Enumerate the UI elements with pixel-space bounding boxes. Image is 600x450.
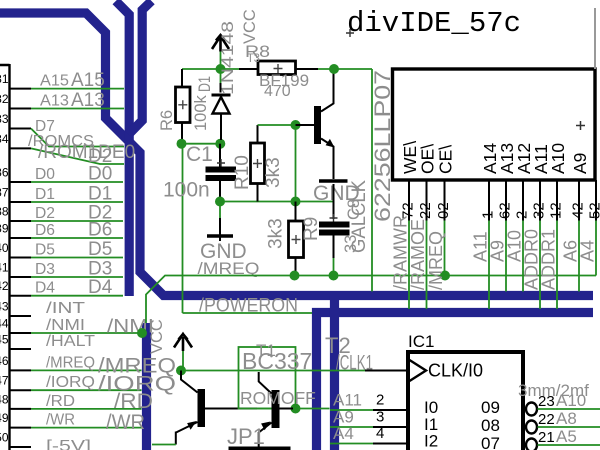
connector pin 37 row	[10, 201, 32, 203]
connector pin 47 row	[10, 389, 32, 391]
svg-text:40: 40	[0, 241, 9, 255]
svg-text:CE\: CE\	[436, 145, 456, 174]
svg-text:A8: A8	[556, 409, 577, 428]
transistor T3 base bar	[314, 106, 321, 144]
wire /POWERON	[183, 312, 313, 314]
svg-text:22: 22	[538, 411, 555, 428]
diode D1 anode pin	[220, 114, 222, 141]
svg-text:OE\: OE\	[418, 144, 438, 174]
svg-text:/RD: /RD	[46, 393, 75, 410]
IC1 clock input triangle	[410, 360, 427, 381]
resistor R8	[258, 61, 296, 75]
svg-text:/HALT: /HALT	[46, 333, 96, 350]
transistor T2 base bar	[198, 389, 206, 427]
svg-text:JP1: JP1	[227, 424, 265, 449]
connector pin 34 row	[10, 147, 32, 149]
connector pin 40 row	[10, 257, 32, 259]
RAM pin 2 (A12)	[522, 180, 524, 221]
svg-text:44: 44	[0, 317, 9, 331]
transistor T1 base bar	[272, 390, 280, 428]
connector pin 41 row	[10, 276, 32, 278]
svg-text:3: 3	[376, 409, 384, 426]
svg-text:49: 49	[0, 411, 9, 425]
diode D1	[212, 94, 231, 97]
capacitor C8 top pin from GND	[333, 184, 335, 219]
resistor R8 left pin	[239, 68, 258, 70]
connector pin 31 row	[10, 88, 32, 90]
IC1 box	[408, 352, 523, 450]
svg-text:A4: A4	[578, 240, 598, 262]
connector pin 46 row	[10, 369, 32, 371]
svg-text:T3: T3	[247, 51, 260, 65]
junction J2 (181.5,143.7)	[177, 139, 187, 149]
svg-text:12: 12	[548, 202, 565, 219]
svg-text:/RD: /RD	[114, 390, 153, 413]
transistor T1 emitter	[259, 423, 272, 448]
junction J10 (445,275.5)	[440, 271, 450, 281]
svg-text:/MREQ: /MREQ	[426, 231, 446, 290]
svg-text:36: 36	[0, 166, 9, 180]
svg-text:D1: D1	[35, 186, 55, 203]
svg-text:/IORQ: /IORQ	[46, 374, 95, 391]
junction J12 (295.5,408.5)	[291, 404, 301, 414]
svg-text:21: 21	[538, 429, 555, 446]
svg-text:09: 09	[481, 398, 500, 417]
wire T2 emitter to bus	[152, 444, 176, 446]
bus B1 (left horizontal, X-cross to lower-right horizontal bus)	[0, 13, 593, 296]
svg-text:R6: R6	[158, 110, 176, 131]
capacitor C1 top pin	[219, 144, 221, 167]
wire D1 anode to VCC node	[220, 69, 222, 83]
resistor R6	[176, 87, 191, 123]
resistor R10 bottom pin	[257, 184, 259, 202]
wire CLK row	[181, 370, 365, 372]
connector pin 32 row	[10, 108, 32, 110]
svg-text:3k3: 3k3	[266, 218, 287, 249]
junction J9 (333.5,275.5)	[329, 271, 339, 281]
svg-text:1: 1	[480, 211, 497, 219]
RAM pin 27 (WE\)	[408, 180, 410, 221]
svg-text:ADDR1: ADDR1	[539, 229, 559, 290]
svg-text:A13: A13	[40, 93, 69, 110]
svg-text:/NMI: /NMI	[107, 317, 154, 338]
svg-text:A15: A15	[71, 70, 105, 91]
svg-text:1N4148: 1N4148	[219, 21, 237, 95]
wire T2 base black segment	[205, 408, 257, 410]
wire long vertical from J2 down to /POWERON corner	[182, 144, 184, 313]
transistor T2 emitter	[176, 422, 198, 445]
capacitor C8 bottom pin	[333, 236, 335, 259]
IC RAM 62256 box	[393, 69, 596, 180]
svg-text:A15: A15	[40, 73, 69, 90]
resistor R10	[251, 143, 265, 184]
bus B3 (vertical, crosses to merge with B2 line)	[129, 1, 152, 135]
svg-text:/INT: /INT	[46, 300, 86, 317]
junction J7 (294.5,275.5)	[290, 271, 300, 281]
svg-text:08: 08	[481, 416, 500, 435]
svg-text:R10: R10	[232, 155, 253, 190]
svg-text:07: 07	[481, 434, 500, 450]
wire C8 to /MREQ wire	[333, 258, 335, 276]
resistor R9 bottom pin	[295, 258, 297, 272]
svg-text:BC337: BC337	[242, 348, 312, 374]
svg-text:A10: A10	[548, 143, 568, 174]
svg-text:VCC: VCC	[148, 319, 166, 354]
capacitor C8 plates	[319, 222, 350, 228]
svg-text:D4: D4	[35, 280, 55, 297]
svg-text:31: 31	[0, 72, 9, 86]
svg-text:T2: T2	[325, 333, 351, 358]
connector pin 44 row	[10, 332, 32, 334]
VCC symbol V2	[174, 334, 192, 351]
connector pin 49 row	[10, 427, 32, 429]
wire J5 to C8 gnd line	[296, 201, 334, 203]
svg-text:3k3: 3k3	[263, 157, 284, 188]
svg-text:/MREQ: /MREQ	[46, 354, 95, 371]
RAM pin 22 (OE\)	[426, 180, 428, 221]
resistor R10 top pin	[257, 125, 259, 143]
connector pin 36 row	[10, 181, 32, 183]
connector pin 33 row	[10, 128, 32, 130]
svg-text:62256LLP07: 62256LLP07	[370, 70, 395, 222]
junction J1 (220.5,69)	[216, 64, 226, 74]
svg-text:I2: I2	[424, 432, 438, 450]
junction J4 (295.5,125)	[291, 120, 301, 130]
svg-text:/ROM1DE0: /ROM1DE0	[38, 142, 135, 163]
svg-text:46: 46	[0, 354, 9, 368]
svg-text:/RAMOE: /RAMOE	[408, 219, 428, 290]
transistor T3 base wire	[296, 124, 315, 126]
RAM pin 26 (A13)	[505, 180, 507, 221]
svg-text:D1: D1	[196, 76, 214, 92]
resistor R9 top pin	[295, 202, 297, 222]
svg-text:/POWERON: /POWERON	[199, 296, 298, 317]
svg-text:D3: D3	[35, 261, 55, 278]
wire node row 69 left	[182, 68, 239, 70]
RAM pin 25 (A4)	[595, 180, 597, 221]
transistor T2 collector	[181, 371, 198, 393]
svg-text:32: 32	[531, 202, 548, 219]
svg-text:470: 470	[264, 83, 291, 100]
wire corner down to bus (GALCLK)	[371, 69, 373, 292]
stray vertical edge above RAM box	[594, 8, 596, 69]
junction J6 (220,201.5)	[215, 197, 225, 207]
svg-text:/NMI: /NMI	[46, 317, 85, 334]
wire R8 to corner	[318, 68, 372, 70]
connector pin 38 row	[10, 220, 32, 222]
VCC symbol V1 (top)	[212, 35, 229, 52]
svg-text:34: 34	[0, 132, 9, 146]
resistor R8 right pin	[296, 68, 319, 70]
wire R10 to J4	[258, 124, 296, 126]
svg-text:ROMOFF: ROMOFF	[240, 388, 316, 408]
IC1 left pin 4 (I2)	[330, 443, 373, 445]
svg-text:2: 2	[376, 392, 384, 409]
resistor R6 bottom pin	[181, 123, 183, 141]
svg-text:22: 22	[417, 202, 434, 219]
svg-text:33: 33	[342, 235, 360, 253]
svg-text:D5: D5	[88, 239, 112, 260]
svg-text:45: 45	[0, 333, 9, 347]
wire J2-J3	[182, 143, 221, 145]
connector pin 43 row	[10, 315, 32, 317]
svg-text:02: 02	[435, 202, 452, 219]
svg-text:32: 32	[0, 92, 9, 106]
connector pin 42 row	[10, 295, 32, 297]
wire CLK pin stub	[365, 370, 409, 372]
svg-text:D1: D1	[88, 184, 112, 205]
title origin cross	[346, 29, 354, 37]
ground symbol GND1	[319, 179, 348, 182]
transistor T3 collector	[321, 70, 334, 112]
bus B6 (left-bottom vertical bus)	[142, 323, 151, 450]
junction J11 (181,370.5)	[176, 366, 186, 376]
svg-text:A9: A9	[570, 153, 590, 174]
svg-text:D0: D0	[35, 166, 55, 183]
capacitor C1 plates	[206, 167, 237, 173]
wire J4 vertical to J5	[295, 125, 297, 202]
connector pin 39 row	[10, 237, 32, 239]
svg-text:37: 37	[0, 186, 9, 200]
junction blob where /NMI meets bus	[137, 328, 147, 338]
RAM pin 24 (A9)	[578, 180, 580, 221]
svg-text:50: 50	[0, 431, 9, 445]
wire J6 down to GND	[219, 202, 221, 219]
connector pin 45 row	[10, 348, 32, 350]
wire J6 to R10/J5	[220, 201, 296, 203]
bus B4 (lower horizontal bus with corner down to bottom edge)	[317, 313, 594, 450]
RAM pin 1 (A14)	[488, 180, 490, 221]
svg-text:A13: A13	[71, 90, 105, 111]
svg-text:41: 41	[0, 261, 9, 275]
diode D1 cathode pin	[220, 83, 222, 93]
connector pin 50 row	[10, 446, 32, 448]
junction J8 (334,69)	[329, 64, 339, 74]
capacitor C1 bottom pin	[219, 181, 221, 198]
svg-text:VCC: VCC	[241, 9, 259, 44]
svg-text:100n: 100n	[163, 179, 210, 202]
svg-text:3mm/2mf: 3mm/2mf	[518, 381, 589, 400]
jumper JP1 bar	[229, 447, 291, 450]
resistor R9	[289, 221, 304, 258]
IC1 left pin 3 (I1)	[330, 426, 373, 428]
GND pin stub (C1 side)	[219, 218, 221, 241]
connector pin 48 row	[10, 408, 32, 410]
RAM pin 20 (CE\)	[444, 180, 446, 221]
svg-text:42: 42	[0, 279, 9, 293]
svg-text:CLK/I0: CLK/I0	[428, 361, 483, 381]
selection rect around T1 (green)	[239, 347, 296, 409]
svg-text:4: 4	[376, 425, 384, 442]
resistor R6 top pin	[181, 69, 183, 87]
svg-text:2: 2	[514, 211, 531, 219]
wire VCC1 stem	[220, 52, 222, 65]
junction J3 (220.3,143.7)	[215, 139, 225, 149]
svg-text:/WR: /WR	[106, 411, 145, 434]
capacitor C1 origin cross	[217, 159, 225, 167]
svg-text:33: 33	[0, 112, 9, 126]
ground symbol GND2	[207, 234, 233, 237]
wire /MREQ long horizontal with jog to bus B6	[146, 276, 596, 324]
svg-text:48: 48	[0, 392, 9, 406]
svg-text:A4: A4	[333, 424, 354, 443]
svg-text:A5: A5	[556, 427, 577, 446]
svg-text:C1: C1	[186, 143, 213, 166]
transistor T3 emitter	[321, 139, 334, 180]
junction J5 (295.5,201.5)	[291, 197, 301, 207]
svg-text:38: 38	[0, 205, 9, 219]
bus B5 (middle vertical bus from upper horizontal bus to bottom)	[330, 296, 339, 450]
svg-text:IC1: IC1	[408, 332, 434, 351]
transistor T1 base stub	[280, 408, 294, 410]
svg-text:52: 52	[587, 202, 600, 219]
svg-text:D6: D6	[88, 220, 112, 241]
svg-text:100k: 100k	[192, 94, 210, 131]
svg-text:D2: D2	[35, 205, 55, 222]
svg-text:D6: D6	[35, 222, 55, 239]
svg-text:D4: D4	[88, 277, 113, 298]
svg-text:39: 39	[0, 222, 9, 236]
svg-text:D2: D2	[88, 146, 112, 167]
svg-text:D5: D5	[35, 242, 55, 259]
svg-text:62: 62	[497, 202, 514, 219]
wire base row green	[257, 408, 330, 410]
svg-text:[-5V]: [-5V]	[46, 438, 91, 450]
capacitor C8 origin cross	[330, 214, 338, 222]
RAM pin 21 (A10)	[556, 180, 558, 221]
wire VCC2 stem	[182, 351, 184, 371]
bus B2 (vertical, ends flat above /POWERON area)	[116, 1, 129, 296]
svg-text:47: 47	[0, 374, 9, 388]
svg-text:R9: R9	[301, 217, 322, 241]
IC RAM origin cross	[576, 121, 585, 130]
RAM pin 23 (A11)	[539, 180, 541, 221]
IC1 left pin 2 (I0)	[330, 409, 373, 411]
connector X1 box edge	[0, 64, 10, 450]
svg-text:43: 43	[0, 300, 9, 314]
transistor T1 collector	[259, 372, 272, 394]
svg-text:/WR: /WR	[46, 412, 75, 429]
svg-text:42: 42	[570, 202, 587, 219]
svg-text:divIDE_57c: divIDE_57c	[347, 7, 521, 40]
